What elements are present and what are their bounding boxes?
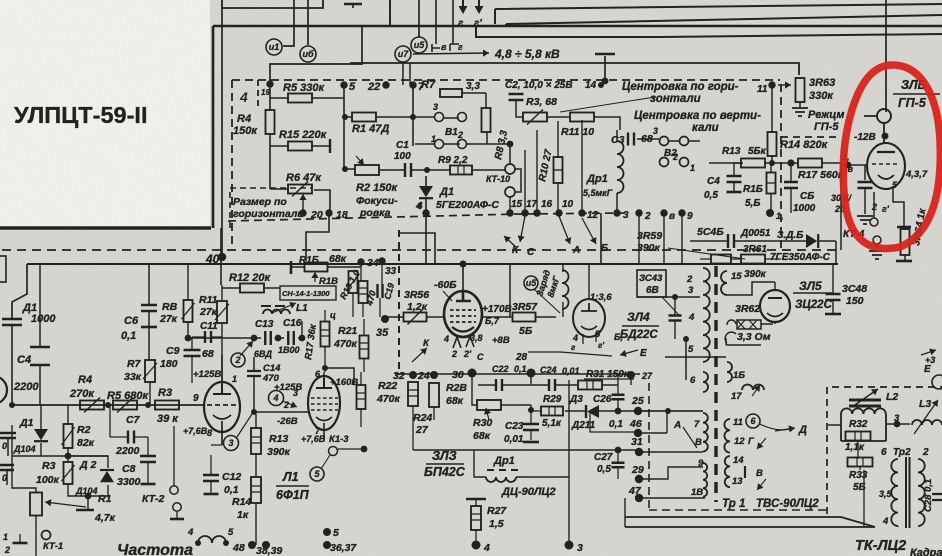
label w5: [688, 344, 694, 355]
tube ЗЛ5 cathode: [767, 313, 783, 317]
node 48: [248, 541, 256, 549]
resistor R1: [352, 113, 376, 122]
stubs 2,8,9: [639, 213, 682, 263]
bar C8: [141, 483, 156, 486]
wire Д1: [425, 176, 427, 213]
label 3 b2: [653, 126, 658, 136]
node coil l: [195, 540, 201, 546]
node R2 y456: [65, 453, 72, 460]
label +125В b: [274, 382, 302, 393]
label Г w: [748, 436, 755, 447]
label Б: [601, 243, 608, 254]
label C12 val: [224, 484, 239, 496]
wire horizontal y26 thick: [213, 25, 942, 27]
resistor R8 v: [182, 300, 195, 322]
choke Др1 winding: [617, 141, 624, 193]
label 48: [232, 542, 245, 554]
node r4r5: [105, 402, 111, 408]
wire 25 link: [649, 410, 703, 412]
L1 core dashes: [261, 305, 285, 307]
label ГП-5: [898, 96, 927, 110]
label R28: [446, 382, 467, 394]
arrow Д w: [775, 425, 795, 432]
node R1 x413: [410, 114, 416, 120]
choke Др1 b coil: [486, 477, 516, 482]
R16 midline: [767, 182, 776, 184]
node 22: [382, 81, 389, 88]
node 14: [598, 82, 604, 88]
capacitor C23: [523, 424, 539, 430]
test point КТ-4 circles: [870, 218, 881, 244]
label C23 val: [504, 434, 524, 445]
label R11 10: [561, 126, 594, 138]
capacitor C9: [184, 350, 201, 356]
label 20: [310, 209, 323, 221]
wire 3С48: [832, 263, 834, 313]
vertical x426: [425, 213, 427, 263]
label К deflect: [423, 338, 430, 349]
label R3 b val: [157, 413, 179, 425]
tube ЗЛ2 grids: [450, 310, 476, 322]
HV bus y63: [350, 63, 799, 75]
label 17: [526, 199, 538, 210]
node grid junction: [251, 409, 257, 415]
label R3 100к: [42, 460, 56, 472]
bar 3R64 top: [897, 226, 911, 229]
main bus y263: [27, 263, 838, 265]
wire R33: [858, 441, 860, 470]
partial tube left edge: [0, 376, 7, 404]
resistor R11 v: [215, 301, 229, 323]
label 16: [541, 199, 553, 210]
tube 1:3,6 anode: [581, 303, 597, 311]
label Д1 1000 name: [22, 302, 37, 314]
label R24: [413, 412, 432, 424]
resistor R29: [541, 407, 563, 416]
tube ЗЛ2 anode: [456, 291, 471, 301]
wire diode row: [690, 241, 836, 263]
wire R12: [222, 287, 280, 289]
wire R11 v: [221, 285, 223, 382]
wire C12: [211, 445, 222, 493]
ТВС winding 17: [742, 385, 764, 390]
label 11: [757, 84, 768, 95]
label pin4 tube2: [443, 334, 449, 344]
capacitor ЗС43: [669, 316, 682, 321]
wire node 31: [639, 451, 703, 453]
label 68 c11: [202, 348, 214, 360]
label Размер по: [233, 196, 287, 208]
wire R8 v: [187, 264, 189, 337]
label R4 value: [233, 125, 258, 137]
label зонтали: [650, 93, 701, 105]
resistor 470 mid: [359, 281, 368, 303]
node 5b: [323, 528, 331, 536]
test point КТ-2: [170, 486, 181, 511]
label 27 b: [641, 371, 653, 381]
wire R17 v: [324, 310, 326, 372]
main row y405: [12, 404, 205, 406]
label R18 second: [319, 276, 338, 287]
label C12: [222, 471, 241, 483]
label w2: [686, 274, 693, 285]
wire y297: [637, 296, 700, 298]
resistor 3R56: [404, 310, 427, 325]
diode 7ГЕ350: [806, 234, 818, 248]
label К1-3: [329, 434, 349, 445]
pointer ЗС43: [662, 297, 679, 315]
wire R27: [475, 499, 477, 545]
node 17: [521, 209, 528, 216]
label 4 b: [483, 542, 490, 554]
label 2200 b: [115, 445, 140, 457]
dashed ТК box: [827, 387, 942, 514]
node 46 tap: [665, 408, 671, 414]
wire B1: [413, 117, 460, 144]
R10 midline: [554, 169, 563, 171]
label ЗЦ22С: [795, 299, 833, 311]
node 24: [430, 371, 438, 379]
capacitor C22: [496, 379, 502, 391]
label R24 val: [415, 424, 429, 436]
test point КТ-3 circle: [329, 447, 338, 456]
label Д104 b: [13, 444, 36, 454]
wire и5 up: [418, 0, 420, 37]
wire C9: [192, 337, 222, 383]
inductor L2: [849, 400, 881, 406]
node 31: [635, 448, 643, 456]
label 34: [367, 257, 379, 269]
wire y456 row: [12, 455, 108, 457]
label R3 68: [526, 96, 557, 108]
label R17 560к: [798, 169, 844, 181]
resistor R32: [846, 432, 871, 441]
dashed bus y250: [2, 249, 842, 251]
node 10: [555, 209, 562, 216]
label R14 1к val: [237, 509, 249, 521]
tube Л1b anode: [316, 378, 332, 388]
arrow Е right: [921, 349, 936, 356]
resistor R14 820: [768, 132, 777, 156]
tube ГП-5 cathode: [878, 175, 894, 179]
label 30,5: [831, 193, 853, 203]
terminal иб: [300, 46, 316, 62]
capacitor C19: [378, 284, 383, 298]
label Д1 1000 val: [31, 313, 56, 325]
label 4,8-5,8 кВ: [494, 47, 560, 61]
wire С27: [617, 450, 619, 479]
label А: [572, 245, 580, 256]
label Фокуси: [356, 195, 398, 207]
label С6 val: [121, 330, 136, 342]
dashed box right edge: [780, 84, 782, 250]
wire 46 left: [590, 413, 639, 432]
tube Л1a anode: [213, 384, 231, 394]
vertical x601 lower: [600, 213, 602, 263]
label R12 20к: [229, 272, 271, 284]
arrow Е left: [620, 350, 638, 357]
bar C6 plus: [141, 326, 157, 329]
ground bar Д2: [76, 509, 94, 512]
resistor R9: [450, 166, 472, 175]
label 5С4Б: [697, 226, 724, 238]
label БП42С: [424, 465, 466, 479]
terminal и5: [411, 37, 427, 53]
resistor R17 top: [798, 159, 822, 168]
label 3,8: [470, 333, 483, 343]
tube Л1b feed: [322, 365, 354, 385]
wire R8 down: [467, 132, 510, 170]
node 33: [378, 257, 385, 264]
wire R7 right: [462, 93, 486, 108]
label 2: [457, 130, 463, 140]
wire 3R57: [482, 263, 556, 317]
label R19 1,0: [338, 268, 362, 301]
label R17 36к: [303, 323, 319, 361]
unit label 4 box: [239, 80, 258, 107]
wire tr2 bottom: [864, 470, 898, 527]
component СН box: [280, 286, 336, 300]
resistor R7: [440, 89, 462, 97]
label 8мкГ: [545, 274, 561, 298]
label Заряд: [534, 268, 552, 297]
ТВС winding 2-3-4-5: [703, 268, 710, 362]
wire R13 390: [255, 414, 257, 477]
wire loop top: [222, 0, 323, 8]
wire C13 C16: [188, 321, 302, 338]
capacitor С28: [932, 494, 942, 500]
label 7: [418, 81, 425, 93]
resistor R5: [288, 94, 312, 103]
capacitor C12: [203, 475, 219, 481]
tube Л1a top wire: [221, 355, 223, 394]
label 9r: [687, 211, 693, 222]
label C4r: [707, 176, 720, 187]
label 9 w: [698, 458, 704, 469]
capacitor C2: [509, 94, 524, 100]
node 48b: [262, 541, 270, 549]
label 12 w: [734, 436, 745, 447]
resistor R14 1к: [251, 477, 261, 503]
label 150: [846, 295, 864, 307]
label 3,3: [466, 81, 480, 92]
label 30: [452, 369, 464, 381]
tube Л1b grids: [311, 398, 338, 410]
R2 pot arrow: [356, 156, 364, 165]
resistor R4 b: [80, 398, 104, 413]
node C17 C18: [361, 446, 368, 453]
capacitor 3С48: [826, 294, 841, 300]
label СН-1-1-1300: [282, 289, 330, 298]
switch В2: [660, 137, 689, 167]
wire grid left: [841, 165, 868, 180]
wire ЗС43 cap: [674, 297, 676, 339]
arrow 4 pointer: [283, 401, 297, 408]
capacitor C26: [612, 395, 625, 400]
resistor R31: [578, 381, 602, 390]
coil 3R62 hooks: [725, 320, 736, 343]
label Д2: [79, 459, 97, 471]
wire В2: [637, 139, 700, 141]
wire 15 to ЗЛ5: [727, 282, 775, 295]
wire R5: [270, 84, 344, 98]
wire 3R61 row: [700, 258, 781, 260]
label R16: [743, 184, 763, 195]
ground КТ-4: [869, 251, 885, 259]
terminal bar R15: [329, 139, 331, 153]
bar 3С48: [825, 313, 841, 316]
label С27 val: [597, 464, 611, 475]
wire R1 b: [12, 425, 36, 556]
tube Л1a grid: [207, 404, 239, 406]
wire y357: [665, 339, 726, 380]
label 4 tr2: [882, 516, 889, 527]
wire R30: [472, 373, 531, 405]
capacitor C11: [205, 331, 211, 343]
capacitor 5С4Б: [728, 234, 734, 248]
label 68к mid: [329, 253, 347, 265]
resistor R3 100к: [62, 462, 75, 484]
Тр2 core: [906, 457, 910, 528]
label +3 right: [925, 355, 935, 365]
stub 10: [581, 120, 583, 213]
label C22: [492, 364, 509, 374]
arrow Г w: [757, 438, 766, 449]
label R2 150к: [356, 182, 398, 194]
label С8: [122, 463, 136, 475]
wire node 29: [639, 467, 703, 479]
label 33: [385, 266, 397, 277]
label 38,39: [256, 545, 282, 556]
tube 1:3,6 pins: [583, 332, 596, 344]
label Кадр: [910, 547, 942, 556]
node 40: [218, 253, 226, 261]
pointer 6 curve: [760, 424, 790, 430]
pointer 3R59: [668, 248, 745, 259]
wire КТ-1: [19, 534, 21, 543]
label Л1: [282, 470, 299, 484]
label R14 820к: [780, 139, 829, 151]
label Е right: [924, 364, 931, 375]
label Тр1: [722, 498, 745, 510]
wire L2 R32: [886, 423, 910, 425]
label ГП-5 mode: [814, 121, 839, 133]
node 30: [468, 369, 477, 378]
label Др1: [586, 173, 608, 185]
tube Л1b cathode: [316, 417, 332, 440]
label С6: [124, 315, 139, 327]
resistor at 32: [408, 382, 418, 406]
label 1,2к: [407, 301, 428, 313]
dashed box ТВС left: [648, 383, 650, 510]
label C16: [283, 318, 302, 329]
node 2r: [635, 209, 642, 216]
label Тр2: [893, 447, 911, 458]
label 6 pin: [315, 369, 321, 379]
wire cap gnd: [864, 188, 866, 214]
fraction ЗЛЗ: [426, 463, 464, 465]
label 18 w: [691, 487, 703, 498]
wire Д2 loop: [68, 456, 108, 496]
node 35: [381, 315, 389, 323]
L3 arrow: [914, 400, 938, 434]
wire Д1 b: [40, 405, 42, 456]
node R14: [769, 160, 775, 166]
label C23: [505, 421, 524, 432]
resistor R6: [288, 182, 312, 197]
tube plate blob: [882, 133, 889, 140]
label pin5: [892, 180, 898, 190]
capacitor C16: [288, 331, 294, 345]
capacitor C2 top bar: [595, 53, 615, 56]
arrow 2 pointer: [240, 341, 253, 356]
ТВС winding 15: [721, 271, 727, 295]
label R13 390: [269, 433, 288, 445]
label С6 r: [800, 191, 814, 202]
node gnd д2: [85, 493, 92, 500]
deflection arrow г: [458, 0, 468, 29]
label R29 val: [542, 418, 562, 429]
label 18: [336, 209, 348, 221]
wire R2 b: [67, 405, 69, 462]
label C13: [255, 319, 274, 330]
label 3С48: [842, 283, 867, 295]
label 14 w: [733, 455, 744, 466]
label C9: [166, 345, 180, 357]
label С arrow: [477, 352, 484, 362]
arrow Размер: [299, 194, 306, 211]
label C22 val: [514, 364, 527, 374]
wire С6: [148, 264, 150, 360]
label pin2 edge: [4, 545, 10, 555]
dashed box top edge: [232, 79, 780, 81]
label 3R59: [637, 230, 662, 242]
label Д w: [798, 424, 807, 436]
pointer и5: [534, 289, 560, 313]
fraction ЗЛ4: [622, 325, 659, 327]
label C24 val: [562, 366, 580, 376]
label L2: [886, 391, 898, 403]
label 330к: [809, 90, 834, 102]
terminal и7: [395, 46, 411, 62]
tube ГП-5 grid: [872, 163, 900, 165]
label 3300: [117, 476, 141, 488]
label R30: [473, 417, 492, 429]
wire R18 mid: [291, 266, 361, 268]
resistor R1 b: [30, 493, 42, 516]
label 12: [587, 210, 599, 221]
dashed bus y213: [228, 213, 625, 221]
frame line 2: [506, 15, 942, 27]
wire 28: [528, 352, 612, 356]
label w3: [688, 285, 694, 296]
node 11: [768, 81, 775, 88]
label С27: [594, 452, 613, 463]
resistor R12: [240, 284, 264, 293]
label +8В: [492, 335, 510, 346]
label 3 pin: [293, 388, 298, 398]
wire y450 long: [413, 449, 639, 451]
label 3 mid: [623, 210, 629, 221]
label кали: [692, 122, 719, 134]
label 3R61: [743, 244, 767, 255]
node 5c: [323, 541, 331, 549]
label Б right: [614, 332, 623, 342]
node 25: [634, 407, 642, 415]
switch B1: [435, 113, 467, 149]
capacitor C7: [128, 431, 134, 444]
label 7 pin: [315, 426, 321, 436]
